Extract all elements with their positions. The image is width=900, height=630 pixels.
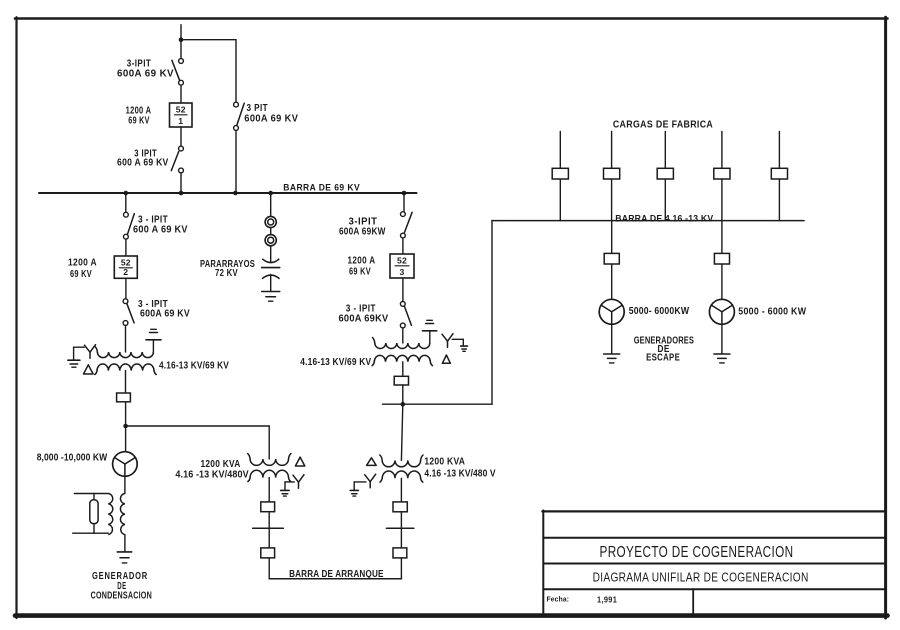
svg-text:600A 69KV: 600A 69KV	[339, 314, 389, 325]
wire factory load 1	[559, 131, 561, 220]
fuse box T5 upper	[393, 502, 407, 512]
wire 4.16 bus to escape generator 2	[721, 221, 723, 300]
svg-text:1,991: 1,991	[597, 595, 617, 604]
svg-text:600 A 69 KV: 600 A 69 KV	[133, 224, 188, 235]
ground T5 wye earth	[350, 490, 358, 496]
delta symbol T5	[367, 458, 377, 466]
svg-text:BARRA DE ARRANQUE: BARRA DE ARRANQUE	[289, 569, 384, 580]
wire to breaker 52-3	[402, 238, 404, 254]
wire incoming 69kV supply drop	[180, 25, 182, 59]
transformer T3 primary winding	[250, 459, 288, 465]
svg-text:72 KV: 72 KV	[215, 268, 238, 279]
node bus-bypass	[233, 191, 238, 196]
wire coil to ground	[124, 535, 126, 552]
wye symbol T2	[85, 345, 96, 359]
ground T4 wye earth	[461, 346, 468, 351]
wire fuse to fuse (right)	[400, 512, 402, 548]
wire down to T5 1200kVA	[401, 404, 402, 460]
bus BARRA DE 69 KV	[39, 192, 417, 194]
generator 8000-10000 KW circle	[113, 452, 138, 477]
svg-text:Fecha:: Fecha:	[547, 595, 570, 604]
wire breaker 52-2 to lower switch	[125, 278, 127, 299]
wire 4.16kV bus riser	[491, 221, 493, 405]
wire down to T3 1200kVA	[268, 426, 270, 459]
node tap to bypass branch	[179, 37, 184, 42]
wire T2 to fuse	[125, 371, 127, 393]
ground T2 wye earth	[68, 360, 80, 367]
wire breaker 52-1 to lower switch	[180, 127, 182, 146]
svg-text:DIAGRAMA UNIFILAR DE COGENE: DIAGRAMA UNIFILAR DE COGENERACION	[593, 570, 809, 585]
ground escape generator 2	[714, 354, 730, 363]
node bus-incoming	[179, 191, 184, 196]
title block frame	[542, 510, 886, 615]
svg-text:1200 KVA: 1200 KVA	[424, 457, 465, 468]
wire factory load 4	[721, 131, 723, 220]
ground neutral T2 (inverted earth)	[146, 329, 161, 340]
transformer T3 secondary winding	[250, 470, 288, 477]
wire T4 to fuse	[402, 362, 404, 377]
fuse box load 3	[657, 168, 673, 179]
wire to 69kV bus	[180, 173, 182, 193]
breaker 52/1	[170, 103, 193, 127]
svg-text:600A 69KW: 600A 69KW	[339, 227, 386, 238]
wire T5 wye to earth	[354, 482, 366, 490]
wire switch to transformer T4	[402, 328, 404, 343]
wire generator G2 to ground	[721, 324, 723, 354]
svg-text:2: 2	[123, 267, 128, 277]
disconnect dash (left starting branch)	[253, 527, 284, 529]
svg-text:CARGAS DE FABRICA: CARGAS DE FABRICA	[613, 119, 714, 130]
wire bus to feeder2 switch	[125, 193, 127, 212]
transformer T5 secondary winding	[382, 471, 420, 478]
wire T4 winding to neutral riser	[429, 331, 431, 343]
wire T5 to fuse	[400, 478, 402, 502]
wire to starting bus (left)	[268, 558, 270, 579]
fuse box T5 lower	[393, 548, 407, 558]
bus BARRA DE ARRANQUE	[269, 578, 401, 580]
svg-text:CONDENSACION: CONDENSACION	[91, 591, 152, 602]
fuse box T3 upper	[261, 502, 275, 512]
breaker 52/3	[390, 254, 414, 278]
ground escape generator 1	[604, 354, 620, 363]
node feeder2 tap to 1200kVA transformer	[123, 424, 128, 429]
fuse/PT box feeder2	[117, 393, 131, 402]
wye symbol T3	[293, 475, 304, 489]
disconnect switch 3-IPIT 600A 69KW (feeder3 upper)	[401, 212, 413, 238]
wire counter to gap	[270, 246, 272, 262]
wire breaker 52-3 to lower switch	[402, 278, 404, 302]
svg-text:8,000 -10,000 KW: 8,000 -10,000 KW	[37, 452, 108, 463]
svg-text:600A 69 KV: 600A 69 KV	[117, 69, 174, 80]
svg-text:4.16-13 KV/69 KV: 4.16-13 KV/69 KV	[300, 357, 371, 368]
ground pararrayos	[262, 292, 280, 302]
resistor stub top	[93, 494, 95, 500]
wire T3 to fuse	[268, 478, 270, 502]
svg-text:ESCAPE: ESCAPE	[646, 352, 680, 363]
wire bus to feeder3 switch	[403, 193, 405, 212]
node bus-feeder3	[402, 191, 407, 196]
fuse box T3 lower	[261, 548, 275, 558]
svg-text:69 KV: 69 KV	[349, 267, 371, 278]
arrester counter upper (double circle)	[265, 216, 276, 227]
wire T2 winding to neutral riser	[152, 340, 154, 352]
fuse/PT box feeder3	[394, 376, 408, 385]
disconnect switch 3-IPIT 600A 69 KV (incoming upper)	[172, 59, 184, 86]
svg-text:1200 A: 1200 A	[348, 255, 376, 266]
svg-text:4.16 -13 KV/480 V: 4.16 -13 KV/480 V	[424, 468, 496, 479]
wire switch to breaker 52-1	[180, 85, 182, 103]
fuse box escape generator 2	[714, 253, 729, 264]
wire fuse to junction feeder3	[402, 385, 404, 404]
transformer T2 primary winding	[97, 352, 153, 358]
wire to starting bus (right)	[400, 558, 402, 579]
wire generator to grounding coil	[124, 476, 126, 493]
svg-text:5000 - 6000 KW: 5000 - 6000 KW	[738, 306, 806, 317]
fuse box load 4	[714, 168, 730, 179]
svg-text:5000- 6000KW: 5000- 6000KW	[629, 306, 690, 317]
wire generator G1 to ground	[611, 324, 613, 354]
transformer T4 secondary winding	[374, 355, 430, 361]
wire tap to left 1200kVA transformer	[126, 425, 270, 427]
fuse box load 1	[552, 168, 568, 179]
delta symbol T4	[442, 355, 450, 363]
spark gap upper horn	[262, 259, 279, 263]
spark gap bar	[262, 267, 280, 269]
wire bypass branch upper	[235, 40, 237, 102]
wire coil bottom lead	[73, 532, 109, 534]
svg-text:PROYECTO DE COGENERACION: PROYECTO DE COGENERACION	[600, 544, 794, 561]
svg-text:BARRA DE 69 KV: BARRA DE 69 KV	[283, 182, 360, 193]
wire T3 wye to earth	[285, 482, 294, 490]
node bus-feeder2	[124, 191, 129, 196]
svg-text:52: 52	[397, 256, 407, 266]
wire 4.16 bus to escape generator 1	[611, 221, 613, 300]
wire factory load 3	[664, 131, 666, 220]
wire T4 wye to earth	[452, 339, 463, 346]
wye symbol T4	[442, 334, 453, 348]
wire tap stub left	[383, 403, 403, 405]
svg-text:600A 69 KV: 600A 69 KV	[140, 309, 190, 320]
disconnect switch 3-IPIT 600A 69KV (feeder3 lower)	[400, 302, 411, 328]
svg-text:52: 52	[121, 258, 131, 268]
svg-text:3: 3	[400, 267, 405, 277]
svg-text:600 A 69 KV: 600 A 69 KV	[117, 158, 169, 169]
fuse box escape generator 1	[604, 253, 619, 264]
wire coil top lead	[74, 493, 108, 495]
wire bus to arrester	[270, 193, 272, 216]
wire factory load 2	[611, 131, 613, 220]
delta symbol T2	[84, 365, 94, 374]
wire switch to transformer T2	[125, 325, 127, 352]
svg-text:69 KV: 69 KV	[128, 116, 149, 127]
spark gap lower horn	[262, 275, 280, 279]
wire bypass branch lower	[235, 130, 237, 193]
arrester counter lower (double circle)	[265, 235, 276, 246]
wire tap to 4.16kV bus riser	[403, 403, 492, 405]
ground neutral T4 (inverted earth)	[423, 320, 437, 331]
wire factory load 5	[778, 131, 780, 220]
disconnect switch 3-IPIT 600A 69KV (feeder2 lower)	[123, 299, 134, 326]
svg-text:52: 52	[176, 105, 186, 115]
svg-text:1200 KVA: 1200 KVA	[201, 459, 241, 470]
breaker 52/2	[114, 256, 137, 278]
generator 5000-6000KW G1	[599, 299, 624, 324]
wire gap to ground	[270, 275, 272, 292]
disconnect switch 3 PIT 600A 69KV (bypass)	[234, 102, 245, 130]
fuse box load 2	[604, 168, 620, 179]
resistor stub bottom	[93, 524, 95, 534]
wire between counters	[270, 228, 272, 235]
transformer T5 primary winding	[382, 460, 420, 466]
wire to breaker 52-2	[125, 239, 127, 256]
transformer T2 secondary winding	[97, 364, 154, 371]
svg-text:3 PIT: 3 PIT	[247, 103, 269, 114]
svg-text:69 KV: 69 KV	[70, 269, 92, 280]
svg-text:1200 A: 1200 A	[68, 257, 97, 268]
svg-text:600A 69 KV: 600A 69 KV	[244, 114, 298, 125]
disconnect switch 3 IPIT 600A 69KV (incoming lower)	[171, 146, 183, 173]
svg-text:4.16 -13 KV/480V: 4.16 -13 KV/480V	[175, 469, 249, 480]
wire to bypass switch branch	[181, 39, 236, 41]
wire fuse to fuse	[268, 512, 270, 548]
node feeder3 tap	[401, 402, 406, 407]
wire fuse to junction	[125, 402, 127, 452]
fuse box load 5	[771, 168, 787, 179]
node bus-pararrayos	[268, 191, 273, 196]
disconnect dash (right starting branch)	[386, 527, 413, 529]
wire T2 wye to earth	[74, 347, 85, 360]
wye symbol T5	[365, 474, 376, 488]
svg-text:4.16-13 KV/69 KV: 4.16-13 KV/69 KV	[159, 361, 229, 372]
disconnect switch 3-IPIT 600A 69KV (feeder2 upper)	[124, 212, 135, 239]
delta symbol T3	[295, 457, 304, 466]
bus BARRA DE 4.16-13 KV	[492, 220, 804, 222]
generator 5000-6000KW G2	[709, 299, 734, 324]
ground T3 wye earth	[281, 490, 290, 496]
transformer T4 primary winding	[375, 343, 430, 349]
svg-text:1: 1	[178, 116, 183, 126]
resistor R (grounding)	[90, 500, 98, 524]
ground generator condensation	[117, 552, 132, 563]
grounding transformer coil (right)	[120, 494, 124, 535]
grounding transformer coil (left)	[108, 494, 112, 535]
